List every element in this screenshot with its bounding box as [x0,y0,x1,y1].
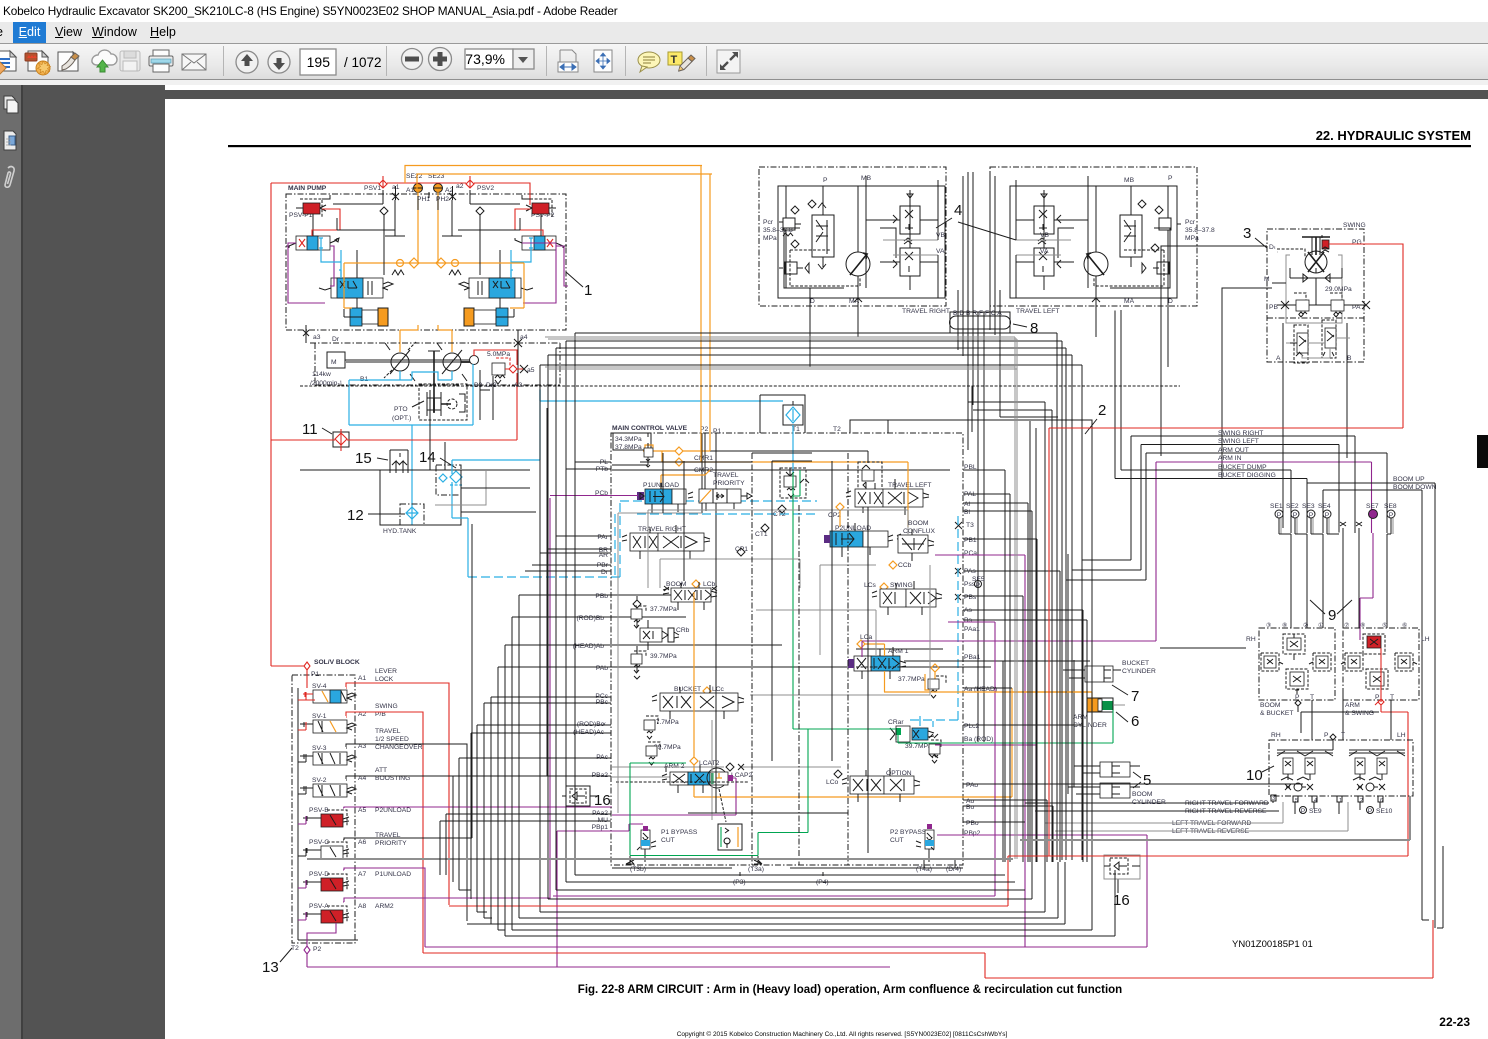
svg-text:7: 7 [1131,688,1139,705]
cyan drain loop [349,364,473,525]
svg-text:P2UNLOAD: P2UNLOAD [375,807,411,814]
svg-text:SE2: SE2 [1286,503,1299,510]
svg-text:Bo: Bo [966,804,974,811]
svg-text:(ROD)Bb: (ROD)Bb [577,615,605,622]
svg-text:2: 2 [1098,402,1106,419]
prime mover dash-dot box [310,343,560,385]
motor M [327,352,345,368]
wire MCV section dividers [752,453,848,868]
svg-text:A: A [1276,355,1281,362]
svg-text:SE9: SE9 [1309,808,1322,815]
a1 a2 X marks [392,186,399,200]
svg-text:T: T [1341,732,1345,739]
svg-text:PSV1: PSV1 [364,185,381,192]
P2/P1 risers [702,433,716,533]
paperclip icon [5,167,14,188]
svg-text:39.7MPa: 39.7MPa [650,653,677,660]
svg-text:P: P [1277,512,1282,519]
cyan pilot dash line [614,514,616,577]
svg-text:(OPT.): (OPT.) [392,415,411,422]
PB PA line [1277,304,1366,306]
svg-text:PRIORITY: PRIORITY [713,480,745,487]
svg-text:Bl: Bl [964,509,970,516]
comment bubble icon [638,52,660,72]
wire BOOM DOWN signal [1323,490,1422,920]
svg-text:P: P [1325,512,1330,519]
svg-text:PSV-D: PSV-D [309,871,329,878]
svg-text:Pcr: Pcr [763,219,774,226]
svg-text:LEVER: LEVER [375,668,397,675]
svg-text:8: 8 [1030,320,1038,337]
zoom dropdown [465,49,513,69]
orange long verticals entering [661,166,710,489]
svg-text:SV-2: SV-2 [312,777,327,784]
svg-text:⑧: ⑧ [1282,622,1287,629]
svg-text:ARM2: ARM2 [375,903,394,910]
svg-text:LCc: LCc [712,686,725,693]
fit page icon [594,50,612,72]
svg-text:MAIN CONTROL VALVE: MAIN CONTROL VALVE [612,425,688,432]
boom&bucket pilot valve [1259,628,1335,700]
svg-text:SV-4: SV-4 [312,683,327,690]
svg-text:P: P [1309,512,1314,519]
svg-text:11: 11 [302,421,318,438]
svg-text:37.7MPa: 37.7MPa [652,719,679,726]
swivel pass lines [958,240,1000,742]
svg-text:P1: P1 [311,671,319,678]
left port labels [573,459,609,831]
svg-text:BUCKET: BUCKET [674,686,701,693]
PSV-P1 valve [289,195,330,219]
svg-text:M: M [1264,276,1270,283]
title bar [0,0,1488,22]
svg-text:1: 1 [584,282,592,299]
svg-text:PRIORITY: PRIORITY [375,840,407,847]
tilt actuator left [344,308,388,326]
center shaft vertical [433,351,435,413]
svg-text:T3: T3 [966,522,974,529]
small pto valve box [718,824,742,850]
wire BUCKET DUMP signal [1121,310,1291,533]
svg-text:CYLINDER: CYLINDER [1132,799,1166,806]
regulator valve left (3pos) [286,236,339,250]
svg-text:LCa: LCa [860,634,873,641]
relief valves [1294,293,1306,303]
left spool column (dual relief) [1034,206,1054,234]
svg-text:P: P [1301,808,1306,815]
wire red top feed [271,183,530,205]
wire right travel signals [1025,803,1279,811]
svg-text:a5: a5 [527,367,535,374]
wire swivel-to-bus links [968,402,1058,417]
main pump dash-dot border [286,194,566,330]
svg-text:P: P [976,582,981,589]
svg-text:PB1: PB1 [964,537,977,544]
minus button [402,49,423,70]
small orifice [791,240,809,273]
svg-text:T2: T2 [833,426,841,433]
svg-text:ARM: ARM [1073,714,1088,721]
wire MCV left port bundle [525,462,611,571]
svg-text:CT2: CT2 [773,511,786,518]
svg-text:35.8–37.8: 35.8–37.8 [1185,227,1215,234]
T1 check diamond (cyan) [783,405,803,425]
P T riser lines [1301,694,1391,740]
svg-text:PBs: PBs [964,594,977,601]
servo spool right [459,270,533,298]
svg-text:CUT: CUT [890,837,904,844]
arm&swing pilot valve [1343,628,1419,700]
mail icon [182,54,206,70]
svg-text:T2: T2 [291,945,299,952]
svg-text:VA: VA [936,248,945,255]
svg-text:P: P [823,177,828,184]
svg-text:VB: VB [936,232,945,239]
svg-text:P: P [1293,512,1298,519]
svg-text:TRAVEL: TRAVEL [713,472,739,479]
svg-text:LCb: LCb [703,581,716,588]
svg-text:13: 13 [262,959,279,976]
motor circle [846,252,870,276]
svg-text:SE7: SE7 [1366,503,1379,510]
svg-text:(T3b): (T3b) [630,866,646,873]
green internals [630,496,1113,856]
svg-text:①: ① [1318,622,1323,629]
svg-text:1/2 SPEED: 1/2 SPEED [375,736,409,743]
left travel pilot [1277,752,1333,754]
leader line to 1 [566,272,583,287]
down arrow button [268,51,290,73]
svg-text:B: B [1347,355,1352,362]
black wires right of tank [430,390,536,512]
svg-text:BOOM: BOOM [908,520,929,527]
svg-text:D: D [810,298,815,305]
svg-text:CRar: CRar [888,719,904,726]
svg-text:BOOM: BOOM [1132,791,1153,798]
separator [223,46,224,76]
sensor SE23 [434,184,443,193]
svg-text:Copyright © 2015 Kobelco Const: Copyright © 2015 Kobelco Construction Ma… [677,1030,1008,1038]
svg-text:MA: MA [1124,298,1135,305]
fit width icon [558,50,578,72]
separator [625,46,626,76]
port lines right of MCV [963,470,1032,862]
svg-text:PLc2: PLc2 [964,723,980,730]
springs W left/right of spools [392,270,461,275]
T1 relief dashed [780,468,806,498]
svg-text:SE3: SE3 [1302,503,1315,510]
svg-text:T: T [1310,694,1314,701]
cyan pump wires [321,248,531,278]
svg-text:16: 16 [594,792,611,809]
T2 relief dashed [858,462,882,492]
wires inside [786,176,938,288]
svg-text:BOOM UP: BOOM UP [1393,476,1425,483]
counterbalance spool right [1120,215,1142,257]
svg-text:PBp2: PBp2 [964,830,981,837]
sensor stubs [1281,518,1393,534]
svg-text:39.7MPa: 39.7MPa [905,743,932,750]
right spool column (dual relief) [900,206,920,234]
pages icon [4,96,15,109]
inner rounded box [784,228,896,288]
svg-text:Pcr: Pcr [1185,219,1196,226]
svg-text:3: 3 [1243,225,1251,242]
lower box [1267,317,1364,319]
svg-text:MB: MB [1124,177,1135,184]
svg-text:SV-1: SV-1 [312,713,327,720]
svg-text:P1 BYPASS: P1 BYPASS [661,829,698,836]
PSV1 red diamond [379,176,387,188]
svg-text:SWING LEFT: SWING LEFT [1218,438,1259,445]
svg-text:P2 BYPASS: P2 BYPASS [890,829,927,836]
svg-text:ATT: ATT [375,767,387,774]
svg-text:BUCKET DIGGING: BUCKET DIGGING [1218,472,1276,479]
svg-text:MAIN PUMP: MAIN PUMP [288,185,327,192]
travel left outer dash-dot [990,167,1197,306]
wire left travel signals [1045,823,1348,831]
orange sensor drops [344,192,524,308]
svg-text:PAb: PAb [596,665,608,672]
svg-text:9: 9 [1328,607,1336,624]
parking brake yoke [1302,237,1330,255]
svg-text:LOCK: LOCK [375,676,394,683]
svg-text:A7: A7 [358,871,366,878]
svg-text:& BUCKET: & BUCKET [1260,710,1293,717]
svg-text:⑧: ⑧ [1360,622,1365,629]
orange top lines [405,166,712,193]
svg-text:4: 4 [954,202,962,219]
pump 1 circle [391,353,409,371]
right port labels [964,464,997,837]
svg-text:PBo: PBo [966,820,979,827]
cyan T1 riser [540,389,793,472]
right travel pilot [1349,752,1405,754]
svg-text:⑥: ⑥ [1402,622,1407,629]
print icon [149,50,173,72]
lines below [1273,801,1380,814]
red long wires [449,428,1408,906]
svg-text:PBp1: PBp1 [592,824,609,831]
check valves row [1290,268,1342,282]
svg-text:SV-3: SV-3 [312,745,327,752]
menu bar [0,22,1488,43]
svg-text:CCb: CCb [898,562,912,569]
svg-text:39.7MPa: 39.7MPa [654,744,681,751]
svg-text:P1: P1 [713,428,721,435]
svg-text:TRAVEL LEFT: TRAVEL LEFT [1016,308,1059,315]
motor circle [1084,252,1108,276]
svg-text:PSV-A: PSV-A [309,903,329,910]
wire swivel riser extensions [963,172,995,276]
svg-text:A6: A6 [358,839,366,846]
gray inner loop [1286,255,1342,323]
text edit icon [668,52,695,71]
PSV-P2 valve [522,195,556,219]
bookmark icon [4,131,16,150]
plugged ports [1340,522,1362,534]
green arm rod [1112,710,1114,743]
tilt actuator right [464,308,514,326]
svg-text:PBb: PBb [595,593,608,600]
wire SWING RIGHT signal [1082,436,1355,560]
svg-text:PH1: PH1 [417,196,430,203]
svg-text:CHANGEOVER: CHANGEOVER [375,744,423,751]
svg-text:(T3a): (T3a) [748,866,764,873]
doc icon 3: sign [58,52,79,71]
svg-text:LCs: LCs [864,582,877,589]
svg-text:15: 15 [355,450,372,467]
svg-text:PAr: PAr [597,534,608,541]
svg-text:SWING: SWING [890,582,913,589]
svg-text:⑦: ⑦ [1344,622,1349,629]
svg-text:5: 5 [1143,772,1151,789]
svg-text:SE4: SE4 [1318,503,1331,510]
columns from travel/swivel to bottom [1045,402,1092,868]
svg-text:TRAVEL: TRAVEL [375,728,401,735]
wire gray return bus pair upper [545,337,1017,859]
svg-text:Ba (ROD): Ba (ROD) [964,736,993,743]
orange diamonds mid [409,258,446,268]
swivel joint [950,312,1010,333]
svg-text:BUCKET: BUCKET [1122,660,1149,667]
page number box [300,49,336,75]
svg-text:BOOM: BOOM [666,581,687,588]
svg-text:LCAT2: LCAT2 [699,760,720,767]
gear pump circle [470,356,479,365]
black T-lines around T1/T2 [760,395,1092,868]
purple PCb feed [550,495,638,497]
nested bus lines between pump/travel and MCV [575,333,1057,875]
red from pump2 to relief [474,350,517,440]
svg-text:22. HYDRAULIC SYSTEM: 22. HYDRAULIC SYSTEM [1316,128,1471,143]
svg-text:YN01Z00185P1 01: YN01Z00185P1 01 [1232,939,1313,950]
svg-text:P: P [1168,175,1173,182]
black risers inside MCV [663,453,832,813]
svg-text:P: P [1375,694,1380,701]
svg-text:CUT: CUT [661,837,675,844]
travel right outer dash-dot [759,167,946,306]
svg-text:114kw: 114kw [312,371,331,378]
svg-text:PTO: PTO [394,406,408,413]
svg-text:MPa: MPa [763,235,777,242]
shaft [345,361,470,363]
svg-text:Dr: Dr [601,569,609,576]
svg-text:ARM IN: ARM IN [1218,455,1242,462]
servo spool left [319,270,393,298]
fullscreen icon [717,50,740,73]
separator [386,46,387,76]
wire red left main vertical [270,183,272,666]
svg-text:HYD.TANK: HYD.TANK [383,528,417,535]
wire BOOM UP signal [1307,483,1435,928]
shuttle diamonds [791,200,816,214]
M line [1272,278,1316,300]
svg-text:34.3MPa: 34.3MPa [615,436,642,443]
svg-text:CRb: CRb [676,627,690,634]
svg-text:LCo: LCo [826,779,839,786]
left small relief [783,218,795,230]
svg-text:Al: Al [964,501,970,508]
svg-text:& SWING: & SWING [1345,710,1374,717]
separator [706,46,707,76]
black pump box internals [333,190,520,236]
svg-text:LH: LH [1421,636,1430,643]
up arrow button [236,51,258,73]
wire SWING LEFT signal [1072,445,1339,571]
svg-text:16: 16 [1113,892,1130,909]
purple PCa / PAa1 [553,555,1025,947]
SE pressure sensors [1270,503,1397,510]
pump internal links [313,214,541,308]
svg-text:SE1: SE1 [1270,503,1283,510]
svg-text:P: P [1389,512,1394,519]
svg-text:Dr: Dr [332,336,340,343]
svg-text:37.8MPa: 37.8MPa [615,444,642,451]
svg-text:CMR1: CMR1 [694,455,713,462]
svg-text:PSV-B: PSV-B [309,807,329,814]
svg-text:PG: PG [1352,239,1362,246]
svg-text:P2: P2 [313,946,321,953]
svg-text:TRAVEL RIGHT: TRAVEL RIGHT [638,526,686,533]
svg-text:14: 14 [419,449,436,466]
svg-text:Fig. 22-8 ARM CIRCUIT : Arm in: Fig. 22-8 ARM CIRCUIT : Arm in (Heavy lo… [578,984,1122,996]
doc icon 1 (partial) [0,51,16,75]
Ds dashed left [1276,251,1278,253]
wire BUCKET DIGGING signal [1115,311,1307,533]
purple pump wires [288,243,568,303]
svg-text:6: 6 [1131,713,1139,730]
svg-text:②: ② [1303,622,1308,629]
D drain dashed [1277,249,1305,257]
motor [1305,251,1327,273]
make up valves [1294,325,1308,363]
svg-text:MPa: MPa [1185,235,1199,242]
svg-text:a3: a3 [313,334,321,341]
svg-text:LH: LH [1397,732,1406,739]
svg-text:SOL/V BLOCK: SOL/V BLOCK [314,659,360,666]
cyan long wires [411,420,413,422]
external: red PG line [1329,244,1403,428]
separator [546,46,547,76]
svg-text:M: M [331,359,337,366]
svg-text:A8: A8 [358,903,366,910]
svg-text:P1UNLOAD: P1UNLOAD [375,871,411,878]
svg-text:(Dr4): (Dr4) [946,866,961,873]
svg-text:37.7MPa: 37.7MPa [898,676,925,683]
wire PBa1 line [856,649,1090,661]
hyd tank box [380,470,461,525]
svg-text:TRAVEL RIGHT: TRAVEL RIGHT [902,308,950,315]
svg-text:RH: RH [1271,732,1281,739]
svg-text:BOOM: BOOM [1260,702,1281,709]
svg-text:A5: A5 [358,807,366,814]
cyan tank lines [452,390,540,577]
svg-text:PSV2: PSV2 [477,185,494,192]
svg-text:⑤: ⑤ [1382,622,1387,629]
toolbar [0,43,1488,80]
svg-text:a2: a2 [456,183,464,190]
red line to hyd tank row [271,439,517,441]
svg-text:A1: A1 [358,675,366,682]
bottom ports [810,288,862,367]
svg-text:37.7MPa: 37.7MPa [650,606,677,613]
wires [1016,176,1168,288]
main control valve outer dash-dot [611,433,963,865]
svg-text:12: 12 [347,507,364,524]
gray internals (return lines) [618,513,876,820]
gray line from tank right [435,470,486,505]
